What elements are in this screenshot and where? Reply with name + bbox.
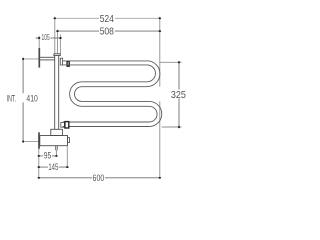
dim 325 top extension xyxy=(160,61,182,63)
INT.410 top extension xyxy=(23,58,39,60)
INT.410 dim line upper segment xyxy=(22,59,24,93)
drain stub xyxy=(56,146,58,151)
dim 524 left extension xyxy=(54,17,56,54)
arrow dots xyxy=(22,17,180,178)
dim 95 line xyxy=(39,155,57,157)
label 325 xyxy=(170,90,186,101)
svg-text:600: 600 xyxy=(93,173,105,183)
svg-text:105: 105 xyxy=(42,32,50,42)
dim 508 line xyxy=(58,30,160,32)
svg-text:508: 508 xyxy=(100,27,114,38)
coil turn left inner xyxy=(74,87,81,102)
bottom coupler xyxy=(61,122,65,127)
coil turn bottom-right outer xyxy=(149,101,162,126)
dim 325 line xyxy=(178,62,180,127)
pipe top cap xyxy=(54,54,60,56)
label 600 xyxy=(92,173,105,183)
top coupler nut xyxy=(67,61,69,66)
wall flange top plate xyxy=(38,48,40,68)
INT.410 bottom extension xyxy=(23,141,39,143)
dim 105 line xyxy=(36,37,61,39)
coil run 4 xyxy=(63,122,150,127)
coil turn top-right outer xyxy=(147,61,160,87)
right extension line lower xyxy=(159,101,161,178)
svg-text:410: 410 xyxy=(26,93,37,103)
wall extension line lower (flange to 600) xyxy=(38,149,40,179)
dim 105 right extension xyxy=(59,35,61,54)
label 508 xyxy=(99,27,115,38)
coil turn left outer xyxy=(70,82,82,107)
svg-text:524: 524 xyxy=(100,14,114,25)
coil run 2 xyxy=(82,82,147,87)
coil run 3 xyxy=(82,101,149,106)
label INT. 410 xyxy=(6,93,39,103)
dim 600 line xyxy=(39,177,160,179)
dim 325 bottom extension xyxy=(162,126,182,128)
label 145 xyxy=(48,162,59,172)
svg-text:INT.: INT. xyxy=(7,93,16,103)
riser pipe walls xyxy=(55,56,59,130)
dim 145 line xyxy=(39,166,68,168)
svg-text:95: 95 xyxy=(44,151,51,161)
drain extension xyxy=(55,150,57,156)
bottom coupler nut xyxy=(65,122,69,128)
dim 524 line xyxy=(55,17,160,19)
svg-text:325: 325 xyxy=(171,90,186,101)
wall flange bottom plate xyxy=(38,132,40,149)
valve right tab xyxy=(68,138,70,143)
wall extension above flange xyxy=(38,36,40,48)
tab extension for 145 xyxy=(66,147,68,168)
right extension line upper (coil right edge) xyxy=(159,17,161,87)
valve body xyxy=(40,136,68,146)
coil turn bottom-right inner xyxy=(149,106,157,122)
label 105 xyxy=(41,32,51,42)
valve collar xyxy=(51,129,63,135)
top bracket arm xyxy=(40,57,55,60)
coil run 1 xyxy=(63,61,147,65)
label 524 xyxy=(99,14,115,25)
svg-text:145: 145 xyxy=(48,162,58,172)
dim 508 left extension xyxy=(57,30,59,54)
label 95 xyxy=(43,151,52,161)
INT.410 dim line lower segment xyxy=(22,102,24,141)
top coupler xyxy=(60,58,62,65)
coil turn top-right inner xyxy=(147,65,155,82)
